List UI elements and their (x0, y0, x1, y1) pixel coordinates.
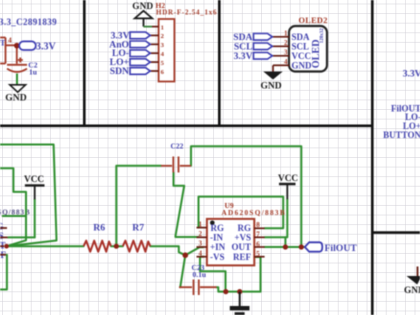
svg-text:-IN: -IN (210, 233, 223, 243)
svg-text:RG: RG (238, 223, 252, 233)
svg-text:2: 2 (284, 39, 288, 47)
svg-text:5: 5 (256, 250, 260, 258)
svg-text:RG: RG (0, 222, 4, 232)
svg-text:HDR-F-2.54_1x6: HDR-F-2.54_1x6 (156, 9, 217, 17)
svg-text:SDA: SDA (292, 32, 311, 42)
svg-text:VCC: VCC (292, 51, 312, 61)
svg-text:1: 1 (161, 24, 164, 31)
svg-text:GND: GND (292, 60, 313, 70)
svg-text:VCC: VCC (24, 175, 44, 185)
svg-text:FilOUT: FilOUT (325, 243, 358, 254)
svg-text:GND: GND (5, 92, 26, 103)
svg-text:4: 4 (284, 58, 288, 66)
svg-text:4: 4 (199, 249, 203, 257)
svg-text:C22: C22 (171, 142, 184, 151)
svg-text:VCC: VCC (278, 174, 298, 184)
svg-text:+VS: +VS (234, 233, 251, 243)
svg-text:3: 3 (199, 240, 203, 248)
svg-text:3.3V: 3.3V (234, 51, 253, 62)
svg-text:GND: GND (404, 286, 420, 296)
svg-text:1: 1 (199, 220, 203, 228)
svg-text:4: 4 (8, 36, 12, 45)
svg-text:3.3_C2891839: 3.3_C2891839 (0, 17, 57, 27)
svg-text:R7: R7 (132, 223, 144, 234)
svg-text:T: T (0, 39, 6, 48)
svg-text:3: 3 (284, 49, 288, 57)
svg-text:+IN: +IN (210, 242, 226, 252)
svg-text:0.1u: 0.1u (193, 270, 207, 279)
svg-text:8: 8 (256, 221, 260, 229)
svg-text:2: 2 (199, 230, 203, 238)
svg-text:3.3V: 3.3V (403, 69, 420, 79)
svg-text:GND: GND (261, 82, 282, 92)
svg-text:OUT: OUT (231, 242, 251, 252)
svg-text:3.3V: 3.3V (36, 42, 57, 53)
svg-text:+VS: +VS (0, 231, 4, 241)
svg-text:BUTTON: BUTTON (383, 130, 420, 140)
svg-text:AD620SQ/883B: AD620SQ/883B (222, 209, 287, 217)
svg-text:6: 6 (256, 240, 260, 248)
svg-text:7: 7 (256, 231, 260, 239)
svg-text:OLED: OLED (311, 39, 322, 68)
svg-text:RG: RG (211, 223, 225, 233)
svg-text:REF: REF (233, 252, 252, 262)
svg-text:SDN: SDN (110, 66, 129, 77)
svg-text:1: 1 (284, 30, 288, 38)
svg-text:OLED2: OLED2 (299, 16, 328, 25)
svg-text:1u: 1u (29, 68, 37, 77)
svg-text:R6: R6 (93, 223, 105, 234)
svg-text:SCL: SCL (292, 41, 310, 51)
svg-text:-VS: -VS (210, 252, 225, 262)
